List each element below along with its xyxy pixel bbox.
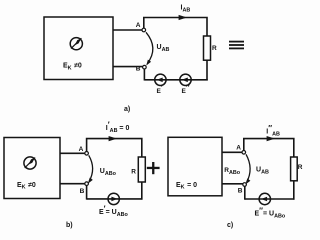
node B (fig c) (243, 183, 247, 187)
wire node B to box c (222, 183, 243, 185)
node B (fig b) (85, 182, 89, 186)
svg-text:b): b) (66, 222, 73, 229)
wire node A up and top run to resistor (fig c) (244, 139, 294, 157)
svg-text:R: R (212, 45, 217, 52)
wire bottom-left corner up to node B (fig b) (86, 186, 88, 200)
bottom wire with sources (fig a) (144, 79, 207, 81)
svg-text:B: B (80, 188, 85, 195)
bottom wire with source (fig b) (87, 198, 143, 200)
plus sign between b) and c) (147, 162, 160, 174)
bottom wire with source (fig c) (245, 198, 295, 200)
svg-text:B: B (238, 188, 243, 195)
wire node B to box a (113, 66, 143, 68)
voltage arc U_AB (fig a) (146, 32, 153, 65)
svg-text:A: A (236, 145, 241, 152)
wire bottom-left corner up to node B (fig c) (244, 186, 246, 199)
wire resistor bottom down (fig b) (141, 182, 143, 200)
svg-text:A: A (79, 146, 84, 153)
wire node B to box b (60, 183, 85, 185)
node B (fig a) (143, 65, 147, 69)
wire box c to node A (222, 151, 242, 153)
EMF source E' (fig b) (108, 193, 119, 204)
wire resistor bottom down (fig c) (293, 181, 295, 200)
svg-text:A: A (136, 22, 141, 29)
voltage arc U_AB (fig c) (246, 154, 251, 184)
node A (fig c) (242, 151, 246, 155)
voltage arc U_ABo (fig b) (88, 155, 93, 183)
svg-text:R: R (131, 168, 136, 175)
EMF source E'' (fig a) (180, 74, 191, 85)
current arrow I_AB (fig a) (179, 15, 187, 20)
network box b (active network E_K ≠ 0) (4, 138, 60, 199)
svg-text:c): c) (227, 222, 233, 229)
wire node A up, top run, down to resistor (fig a) (144, 18, 207, 37)
current arrow I''_AB (fig c) (267, 136, 275, 141)
equivalence symbol ≡ (229, 41, 244, 50)
node A (fig a) (142, 28, 146, 32)
wire bottom-left corner up to node B (fig a) (143, 69, 145, 81)
svg-text:a): a) (124, 106, 130, 113)
wire node A up and top run to resistor (fig b) (87, 139, 142, 157)
resistor R (fig a) (204, 36, 211, 60)
node A (fig b) (85, 152, 89, 156)
EMF source E' (fig a) (155, 74, 166, 85)
svg-text:R: R (298, 164, 303, 171)
wire box b to node A (60, 152, 85, 154)
EMF source E'' (fig c) (259, 193, 270, 204)
source symbol inside box b (24, 157, 36, 169)
wire resistor bottom down (fig a) (206, 60, 208, 80)
source symbol inside box a (circle with needle arrow) (70, 38, 82, 50)
network box c (passive network E_K = 0) (168, 137, 222, 196)
network box a (active two-terminal network) (44, 17, 113, 80)
resistor R (fig c) (291, 157, 298, 181)
current arrow I'_AB (fig b) (109, 136, 117, 141)
resistor R (fig b) (138, 157, 145, 182)
wire box a to node A (113, 29, 142, 31)
